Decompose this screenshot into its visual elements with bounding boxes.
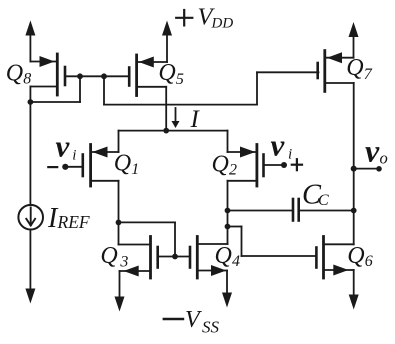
svg-text:V: V	[185, 307, 202, 333]
svg-text:3: 3	[119, 253, 128, 270]
node gate bus dot B	[101, 73, 107, 79]
node vo junction	[351, 166, 357, 172]
svg-text:5: 5	[176, 71, 184, 88]
svg-text:Q: Q	[347, 243, 364, 269]
svg-text:Q: Q	[6, 60, 23, 86]
svg-text:v: v	[271, 128, 286, 163]
wire Q1 drain down	[118, 181, 120, 245]
label Q5	[158, 60, 184, 88]
label I	[190, 106, 201, 133]
current source IREF	[18, 205, 43, 230]
svg-text:2: 2	[229, 161, 237, 178]
power VDD arrow above Q5	[162, 21, 172, 63]
svg-text:6: 6	[365, 253, 373, 270]
label Q3	[100, 243, 128, 270]
wire Q2 source drop	[228, 131, 256, 152]
wire Q8 gate-drain diode tie	[30, 76, 80, 102]
transistor Q8	[30, 54, 65, 95]
transistor Q7	[318, 51, 354, 92]
label Q4	[215, 243, 241, 270]
svg-text:i: i	[72, 148, 76, 164]
wire gate bus Q8-Q5	[65, 75, 129, 77]
node Q3/Q4 gate junction	[172, 254, 178, 260]
wire Q6 gate path	[228, 227, 317, 257]
svg-text:Q: Q	[158, 60, 175, 86]
wire tail rail	[119, 130, 228, 132]
node Q1/Q3 drain junction	[116, 220, 122, 226]
label IREF	[47, 203, 90, 234]
transistor Q1	[83, 145, 119, 187]
output terminal vo	[354, 166, 382, 172]
svg-text:o: o	[380, 148, 388, 167]
svg-text:REF: REF	[57, 212, 90, 232]
wire IREF to VSS	[29, 230, 31, 289]
svg-text:DD: DD	[211, 15, 234, 31]
svg-text:SS: SS	[202, 318, 220, 337]
capacitor CC	[228, 199, 354, 221]
wire Q2 drain down to Q4	[227, 181, 229, 244]
svg-text:i: i	[288, 146, 292, 162]
power VSS arrow below Q4	[222, 271, 232, 308]
svg-text:Q: Q	[215, 243, 232, 269]
power VDD arrow above Q7	[349, 22, 359, 58]
label -VSS	[164, 307, 220, 337]
input terminal vi+	[264, 159, 303, 170]
current arrow I	[172, 108, 180, 128]
svg-text:v: v	[365, 133, 380, 169]
node Q6 gate junction	[225, 224, 231, 230]
svg-text:8: 8	[23, 70, 31, 87]
label Q7	[346, 55, 373, 83]
svg-text:1: 1	[131, 161, 139, 178]
power VSS arrow below Q3	[115, 271, 125, 312]
label vi+	[271, 128, 293, 163]
wire Q5 drain to tail node	[165, 87, 167, 131]
svg-text:Q: Q	[114, 151, 131, 177]
svg-text:I: I	[190, 106, 201, 133]
svg-text:4: 4	[232, 253, 240, 270]
node Cc left junction	[225, 208, 231, 214]
wire Q3 diode tie to gates	[119, 222, 176, 256]
transistor Q3	[119, 237, 191, 279]
power VSS arrow below Q6	[349, 270, 359, 310]
label CC	[302, 180, 329, 211]
label +VDD	[176, 3, 233, 31]
label Q2	[212, 151, 238, 178]
label Q1	[114, 151, 140, 178]
label vo	[365, 133, 388, 169]
svg-text:Q: Q	[100, 243, 117, 269]
transistor Q4	[190, 237, 228, 279]
transistor Q6	[316, 237, 353, 279]
label Q6	[347, 243, 373, 270]
svg-text:Q: Q	[346, 55, 363, 81]
wire Q8 drain down to IREF	[29, 87, 31, 206]
transistor Q5	[129, 55, 167, 96]
power VDD arrow above Q8	[25, 20, 35, 61]
svg-text:v: v	[56, 129, 71, 164]
node gate bus dot A	[77, 73, 83, 79]
wire output column	[353, 83, 355, 244]
wire Q1 source drop	[92, 131, 119, 152]
svg-text:Q: Q	[212, 151, 229, 177]
label Q8	[6, 60, 32, 87]
node tail junction	[163, 128, 169, 134]
wire gate bus to Q7	[104, 72, 319, 104]
svg-text:C: C	[318, 192, 329, 209]
label vi-	[56, 129, 77, 164]
node Cc right junction	[351, 208, 357, 214]
power VSS arrow below IREF	[25, 289, 35, 304]
svg-text:7: 7	[364, 66, 373, 83]
input terminal vi-	[48, 164, 83, 170]
transistor Q2	[228, 145, 264, 187]
node Q8 drain junction	[28, 99, 34, 105]
